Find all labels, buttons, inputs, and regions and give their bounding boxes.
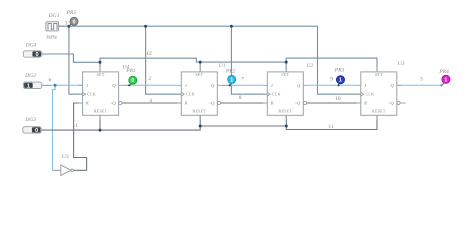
svg-text:SET: SET — [195, 72, 203, 77]
wire net 9 to U3 (FF4) J — [308, 84, 357, 86]
svg-text:1: 1 — [27, 83, 30, 89]
svg-text:DG4: DG4 — [25, 43, 37, 49]
digital constant DG3 value 0 — [23, 117, 42, 134]
wire U3 output to U4 K — [74, 103, 87, 170]
wire SET stub U2 — [285, 62, 287, 72]
svg-text:U3: U3 — [62, 154, 69, 160]
svg-text:9: 9 — [330, 76, 333, 82]
svg-text:RESET: RESET — [193, 109, 207, 114]
svg-text:SET: SET — [375, 72, 383, 77]
svg-text:1: 1 — [75, 123, 78, 129]
svg-text:CLK: CLK — [366, 92, 375, 97]
svg-text:1: 1 — [230, 77, 233, 83]
svg-text:CLK: CLK — [272, 92, 281, 97]
svg-text:10: 10 — [335, 96, 341, 102]
wire SET stub U1 — [199, 62, 201, 72]
junction clock net at x=231.4 — [230, 25, 233, 28]
wire net 9 U2 Q gray lead — [307, 84, 310, 86]
svg-text:U3: U3 — [398, 61, 405, 67]
svg-text:PR4: PR4 — [438, 69, 449, 75]
junction reset rail at U2 — [285, 125, 288, 128]
pin stub U3 (FF4) ~Q unconnected — [400, 102, 406, 104]
wire RESET stub U4 — [99, 115, 101, 130]
flip-flop U3 (FF4) JK — [357, 61, 405, 120]
clock source DG1 1kHz — [46, 13, 64, 41]
wire net 3 clock drop to U3 (FF4) CLK — [318, 26, 361, 94]
flip-flop U2 JK — [263, 63, 313, 120]
svg-text:~Q: ~Q — [208, 101, 214, 106]
svg-text:CLK: CLK — [186, 92, 195, 97]
junction SET rail at U4 — [99, 61, 102, 64]
svg-text:PR3: PR3 — [334, 68, 345, 74]
wire SET stub U4 — [99, 62, 101, 72]
junction reset rail at U4 — [99, 129, 102, 132]
svg-text:2: 2 — [148, 76, 151, 82]
wire net 4 U4 ~Q to U1 K — [122, 102, 181, 104]
wire net 12 DG4 feed to SET rail — [42, 54, 100, 62]
junction SET rail at U2 — [285, 61, 288, 64]
svg-text:1kHz: 1kHz — [46, 35, 58, 41]
svg-text:7: 7 — [241, 77, 244, 83]
svg-text:8: 8 — [239, 95, 242, 101]
wire net 3 clock main horizontal — [59, 25, 318, 27]
wire net 7 to U2 J — [230, 84, 263, 86]
svg-text:PR2: PR2 — [225, 69, 236, 75]
svg-text:~Q: ~Q — [388, 101, 394, 106]
svg-text:4: 4 — [149, 98, 152, 104]
probe PR4 — [438, 69, 450, 87]
svg-text:RESET: RESET — [94, 109, 108, 114]
wire net 5 U3 (FF4) Q to probe PR4 — [398, 84, 441, 86]
svg-text:CLK: CLK — [87, 92, 96, 97]
junction SET rail at U1 — [199, 61, 202, 64]
svg-text:U1: U1 — [219, 63, 226, 69]
wire net 3 clock drop to U1 CLK — [146, 26, 182, 94]
svg-text:5: 5 — [420, 76, 423, 82]
svg-text:3: 3 — [65, 20, 68, 26]
wire net 2 to U1 J — [129, 84, 177, 86]
wire net 8 U1 ~Q to U2 K — [221, 102, 268, 104]
svg-text:DG3: DG3 — [24, 117, 36, 123]
svg-text:SET: SET — [281, 72, 289, 77]
junction reset rail at U1 — [199, 125, 202, 128]
wire net 7 U1 Q gray lead — [222, 84, 230, 86]
wire net 6 DG2 to U4 J — [51, 84, 83, 86]
digital constant DG4 value 0 — [23, 43, 42, 59]
wire SET rail U4 to U1 — [100, 58, 286, 62]
svg-text:PR1: PR1 — [125, 68, 136, 74]
svg-text:RESET: RESET — [372, 109, 386, 114]
flip-flop U4 JK — [78, 64, 129, 120]
wire net 11 DG3 reset rail — [42, 115, 377, 130]
svg-text:0: 0 — [131, 78, 134, 84]
wire net 6 drop to U3 inverter input — [52, 85, 55, 170]
svg-text:1: 1 — [339, 78, 342, 84]
svg-text:0: 0 — [35, 52, 38, 58]
svg-text:12: 12 — [146, 51, 152, 57]
wire net 6 DG2 gray lead — [42, 84, 51, 86]
wire RESET stub U1 — [199, 115, 201, 126]
svg-text:~Q: ~Q — [294, 101, 300, 106]
probe PR2 — [225, 69, 236, 87]
svg-text:SET: SET — [97, 72, 105, 77]
inverter U3 — [61, 154, 74, 176]
junction clock net at x=145.6 — [144, 25, 147, 28]
wire RESET stub U2 — [285, 115, 287, 126]
svg-text:0: 0 — [73, 19, 76, 25]
wire SET rail U2 to U3 (FF4) — [286, 58, 377, 72]
svg-text:1: 1 — [444, 77, 447, 83]
digital constant DG2 value 1 — [23, 73, 42, 90]
svg-text:DG1: DG1 — [48, 13, 60, 19]
junction clock net at x=68.9 — [67, 25, 70, 28]
svg-text:11: 11 — [328, 124, 334, 130]
probe PR3 — [334, 68, 345, 87]
wire net 10 U2 ~Q to U3 (FF4) K — [307, 102, 361, 104]
svg-text:RESET: RESET — [279, 109, 293, 114]
probe PR1 — [125, 68, 137, 87]
svg-text:0: 0 — [35, 128, 38, 134]
wire net 3 clock drop to U4 CLK — [69, 26, 83, 94]
wire net 3 clock drop to U2 CLK — [231, 26, 267, 94]
svg-text:DG2: DG2 — [24, 73, 36, 79]
wire net 6 inverter input lead — [52, 169, 60, 171]
flip-flop U1 JK — [177, 63, 226, 120]
junction net 6 — [54, 84, 57, 87]
probe PR5 — [66, 10, 79, 26]
svg-text:~Q: ~Q — [110, 101, 116, 106]
svg-text:6: 6 — [49, 77, 52, 83]
wire net 2 U4 Q gray lead — [123, 84, 130, 86]
svg-text:U2: U2 — [306, 63, 313, 69]
svg-text:PR5: PR5 — [66, 10, 77, 16]
